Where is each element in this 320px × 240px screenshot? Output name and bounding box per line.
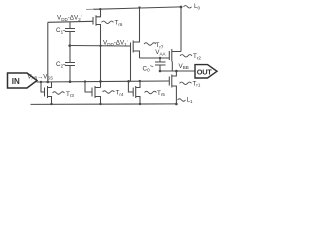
junction Tr3 gate on IN rail bbox=[40, 81, 42, 83]
junction Tr1 drain on OUT node bbox=[175, 70, 178, 73]
junction C1-C2 on H3 rail bbox=[68, 44, 71, 47]
squiggle for Tr5 label bbox=[145, 91, 157, 94]
squiggle for Tr3 label bbox=[53, 92, 65, 95]
junction Tr6 drain on top rail bbox=[99, 8, 101, 10]
svg-text:VAA: VAA bbox=[155, 49, 165, 56]
wire L0 drop right side bbox=[180, 7, 182, 52]
junction C0 top on VAA node bbox=[159, 57, 161, 59]
svg-text:VDD-ΔV1′: VDD-ΔV1′ bbox=[103, 39, 128, 47]
squiggle for Tr2 label bbox=[180, 55, 192, 58]
wire IN rail bbox=[37, 81, 170, 82]
junction Tr4 gate on IN rail bbox=[84, 80, 86, 82]
junction C0 bottom on OUT node bbox=[159, 70, 162, 73]
junction Tr5 source on bottom bus bbox=[139, 103, 141, 105]
svg-text:L1: L1 bbox=[187, 97, 194, 104]
svg-text:VBB: VBB bbox=[179, 63, 189, 70]
wire VAA node bbox=[140, 57, 170, 59]
svg-text:VAB→VSS: VAB→VSS bbox=[28, 74, 54, 80]
svg-text:Tr2: Tr2 bbox=[193, 53, 201, 60]
transistor Tr7 with gate column to Tr5 bbox=[131, 8, 140, 81]
svg-text:C1: C1 bbox=[56, 27, 64, 34]
svg-text:Tr3: Tr3 bbox=[66, 91, 74, 98]
junction Tr6-Tr4 column on IN rail bbox=[99, 80, 102, 83]
tick C2 bbox=[63, 64, 66, 65]
capacitor C2 bbox=[65, 46, 75, 82]
junction V1 drop on IN rail bbox=[47, 81, 50, 84]
transistor Tr3 bbox=[41, 82, 52, 104]
svg-text:IN: IN bbox=[12, 77, 20, 86]
svg-text:C2: C2 bbox=[56, 61, 64, 68]
squiggle for L1 label bbox=[178, 99, 186, 102]
transistor Tr5 bbox=[128, 81, 140, 104]
squiggle for Tr1 label bbox=[180, 82, 192, 85]
junction Tr1 source at L1 end of bus bbox=[175, 103, 178, 106]
svg-text:Tr5: Tr5 bbox=[157, 90, 165, 97]
svg-text:OUT: OUT bbox=[197, 68, 212, 77]
wire H3 VDD-dV1 rail bbox=[70, 45, 131, 48]
wire V1 left drop from H2 to IN rail bbox=[47, 22, 49, 82]
junction Tr5 gate column on IN rail bbox=[127, 80, 130, 83]
svg-text:Tr1: Tr1 bbox=[193, 80, 201, 87]
squiggle for L0 label bbox=[184, 6, 192, 9]
wire OUT node bbox=[160, 70, 195, 72]
transistor Tr2 bbox=[169, 49, 181, 71]
junction Tr6 source column on H3 rail bbox=[99, 45, 101, 47]
wire bottom bus L1 bbox=[31, 103, 177, 106]
svg-text:VDD-ΔV2′: VDD-ΔV2′ bbox=[57, 14, 82, 22]
tick C0 bbox=[150, 66, 153, 67]
junction Tr4 source on bottom bus bbox=[99, 103, 101, 105]
capacitor C1 bbox=[65, 22, 75, 46]
squiggle for Tr7 label bbox=[144, 43, 156, 46]
wire faded left tail of top rail bbox=[86, 8, 94, 10]
port IN bbox=[8, 73, 38, 88]
squiggle for Tr6 label bbox=[102, 21, 114, 24]
node L0 junction dot bbox=[180, 6, 183, 9]
svg-text:C0: C0 bbox=[143, 65, 151, 72]
junction Tr7 drain on top rail bbox=[138, 6, 140, 8]
svg-text:Tr4: Tr4 bbox=[116, 90, 124, 97]
tick C1 bbox=[63, 30, 66, 31]
wire H2 VDD-dV2 rail bbox=[48, 21, 93, 22]
transistor Tr6 bbox=[93, 9, 101, 87]
svg-text:L0: L0 bbox=[194, 3, 201, 10]
junction Tr5 drain on IN rail bbox=[139, 80, 141, 82]
junction Tr3 source on bottom bus bbox=[50, 103, 52, 105]
capacitor C0 bbox=[155, 58, 166, 71]
squiggle for Tr4 label bbox=[103, 91, 115, 94]
transistor Tr4 bbox=[85, 82, 101, 104]
svg-text:Tr6: Tr6 bbox=[115, 20, 123, 27]
wire top rail L0 bbox=[93, 7, 181, 9]
port OUT bbox=[195, 65, 217, 78]
junction C2 bottom on IN rail bbox=[69, 80, 72, 83]
transistor Tr1 bbox=[169, 71, 176, 104]
